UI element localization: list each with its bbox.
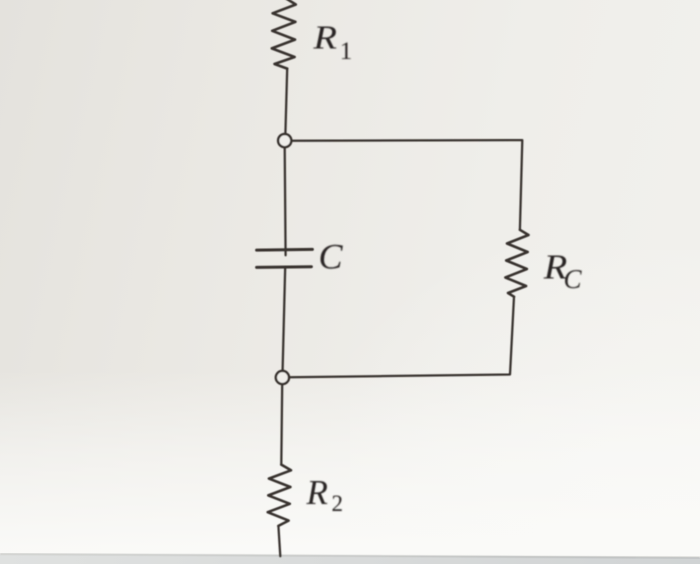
svg-text:C: C [319, 237, 344, 277]
svg-text:R: R [312, 18, 337, 55]
resistor R1 [272, 0, 296, 69]
svg-text:1: 1 [340, 38, 353, 65]
resistor RC [505, 230, 528, 297]
wire node A to top-right corner [292, 140, 523, 230]
capacitor C top plate [257, 248, 313, 252]
wire node B to R2 [280, 385, 283, 465]
wire capacitor to node B [283, 267, 286, 371]
resistor R2 [268, 465, 291, 526]
node A [278, 134, 291, 147]
svg-text:2: 2 [332, 491, 344, 516]
wire RC to bottom-right corner to node B [290, 297, 514, 378]
capacitor C bottom plate [257, 265, 312, 269]
node B [276, 371, 289, 384]
wire R1 to node A [285, 69, 287, 134]
svg-text:C: C [564, 264, 583, 294]
desk edge strip at bottom of photo [0, 554, 700, 564]
svg-text:R: R [306, 473, 328, 512]
wire node A to capacitor [284, 148, 287, 255]
wire R2 to bottom edge [278, 526, 280, 556]
